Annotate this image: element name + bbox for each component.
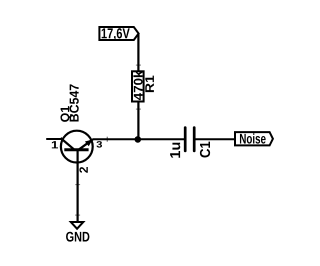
pin number 2 xyxy=(79,167,87,173)
label GND xyxy=(66,232,89,242)
pin tick Q1 pin2 end xyxy=(75,184,80,185)
value label 470k xyxy=(133,71,142,101)
designator C1 xyxy=(200,142,210,158)
transistor Q1 xyxy=(61,131,93,163)
resistor R1 body xyxy=(132,71,144,101)
value label 1u xyxy=(170,143,180,158)
designator R1 xyxy=(145,76,154,93)
net label Noise xyxy=(235,132,273,145)
capacitor C1 xyxy=(185,128,194,151)
pin number 1 xyxy=(52,141,58,148)
pin tick GND xyxy=(75,215,80,216)
ground symbol xyxy=(69,221,86,230)
pin tick R1 bottom xyxy=(136,109,141,110)
wire C1 to Noise flag xyxy=(196,138,236,140)
supply net flag 17,6V xyxy=(99,27,138,41)
value label BC547 xyxy=(70,84,79,121)
wire Q1 pin2 to ground xyxy=(76,150,78,221)
designator Q1 xyxy=(60,106,71,122)
wire R1 to junction node xyxy=(137,102,139,139)
pin tick R1 top xyxy=(136,65,141,66)
pin tick Q1 pin3 end xyxy=(107,137,108,142)
wire stub Q1 pin1 xyxy=(46,138,62,140)
junction node dot xyxy=(135,136,142,143)
pin number 3 xyxy=(96,141,102,148)
wire flag tip to resistor R1 xyxy=(137,34,139,71)
wire Q1 pin3 to capacitor C1 xyxy=(93,138,184,140)
